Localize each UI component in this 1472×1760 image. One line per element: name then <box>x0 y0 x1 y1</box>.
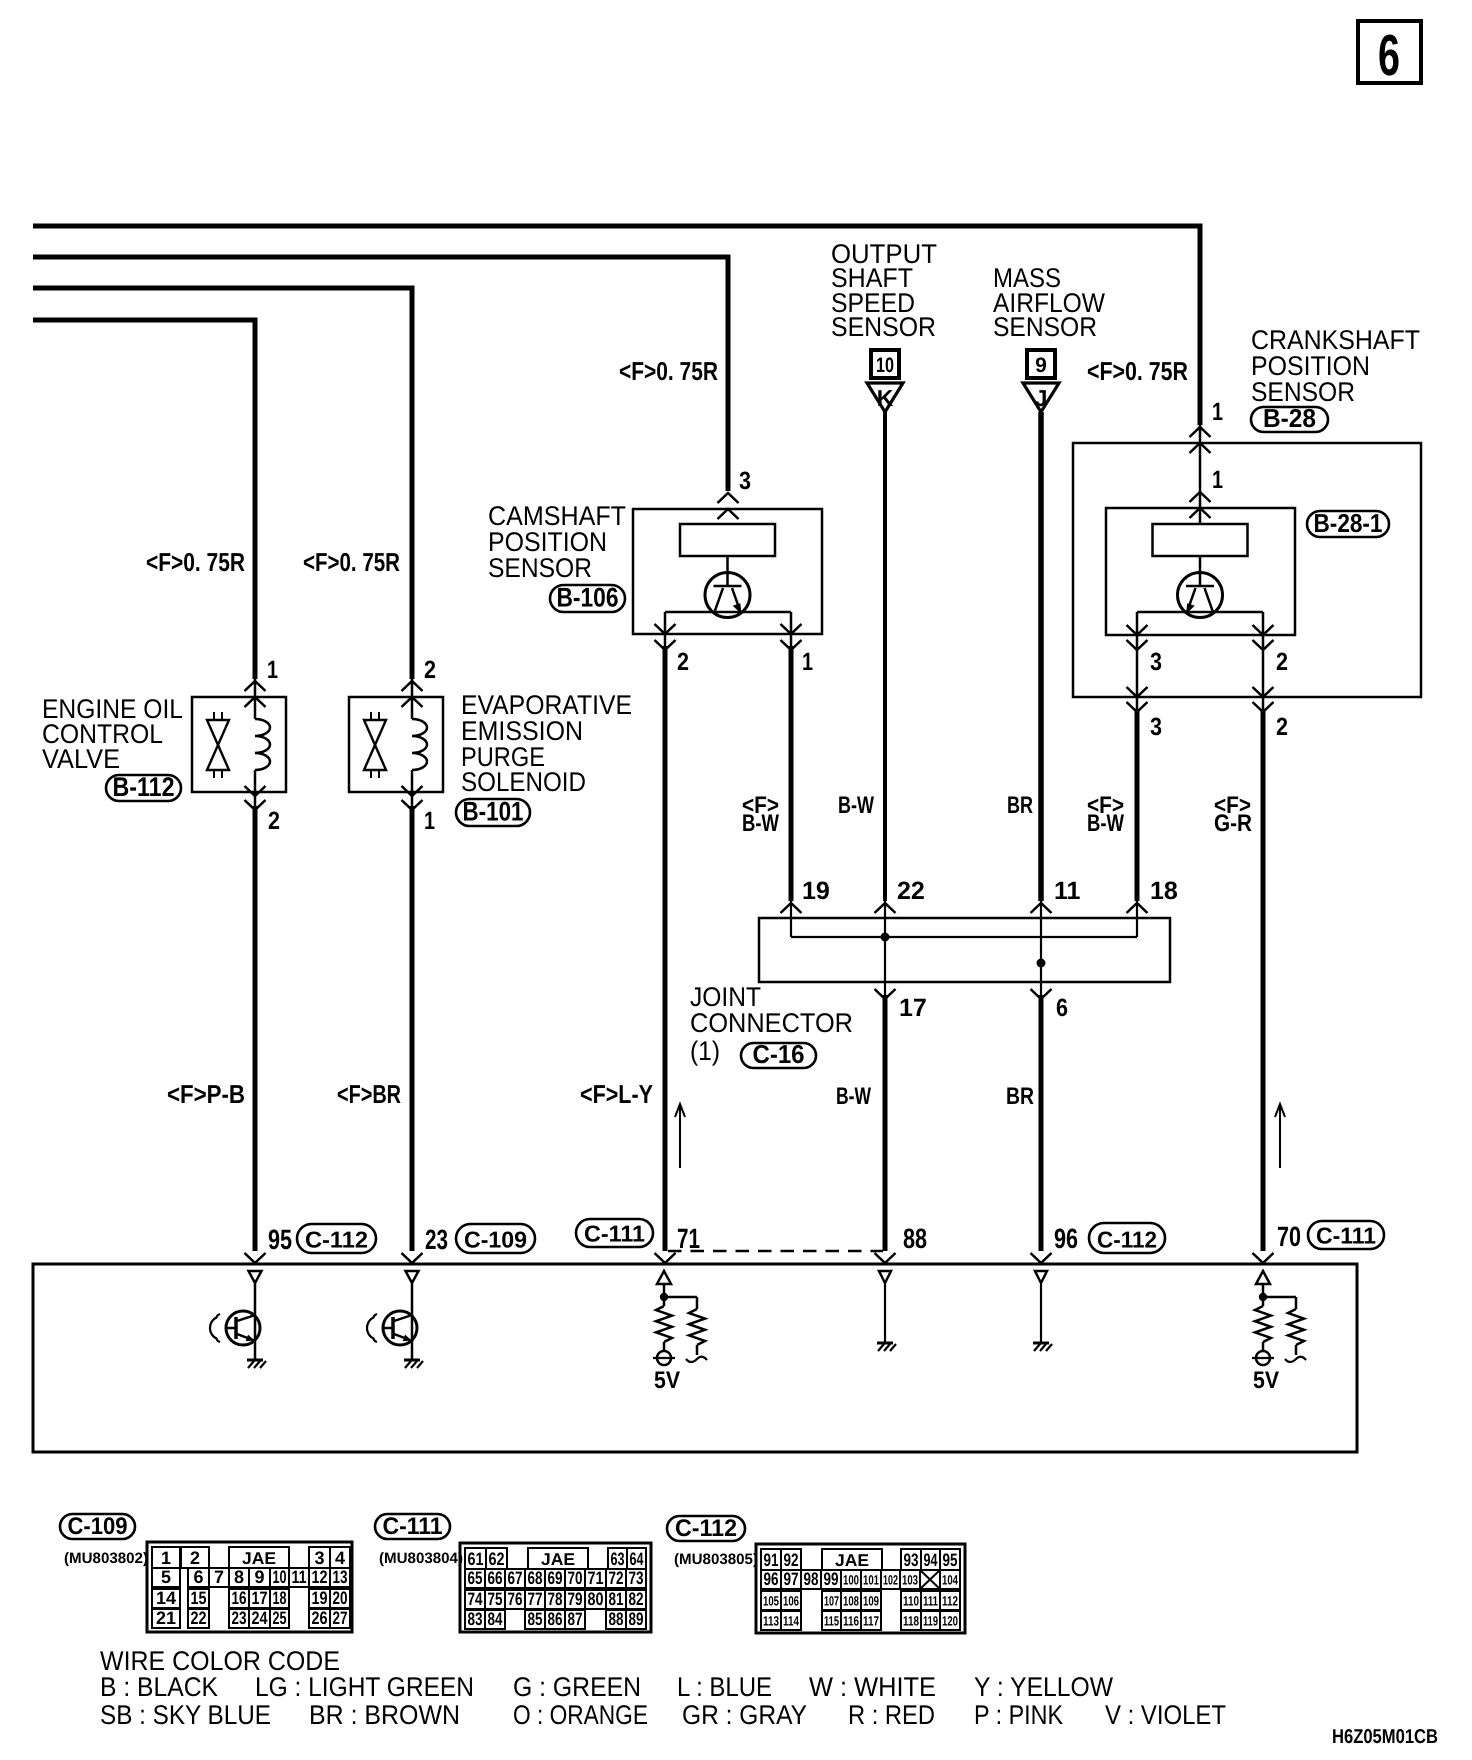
connector table C-111 <box>375 1514 450 1539</box>
svg-text:B-106: B-106 <box>557 583 619 613</box>
svg-text:85: 85 <box>528 1609 543 1629</box>
crankshaft sensor internal bottom link <box>1137 611 1263 614</box>
svg-text:<F>0. 75R: <F>0. 75R <box>146 547 245 577</box>
svg-text:70: 70 <box>1277 1221 1301 1252</box>
svg-text:J: J <box>1035 385 1048 411</box>
svg-text:116: 116 <box>843 1614 859 1629</box>
svg-text:66: 66 <box>488 1568 503 1588</box>
svg-text:70: 70 <box>568 1568 583 1588</box>
svg-text:1: 1 <box>1212 398 1223 426</box>
svg-text:6: 6 <box>193 1567 203 1587</box>
svg-text:(MU803804): (MU803804) <box>379 1550 463 1567</box>
connector code C-112 <box>1089 1223 1165 1253</box>
svg-text:(1): (1) <box>690 1036 720 1066</box>
wire: feed to crankshaft position sensor pin 1 <box>33 226 1200 425</box>
pull-up input circuit (pin 70) <box>1256 1271 1270 1284</box>
svg-text:<F>0. 75R: <F>0. 75R <box>1087 356 1188 386</box>
connector code C-16 <box>741 1043 816 1068</box>
svg-text:27: 27 <box>333 1608 348 1628</box>
svg-text:3: 3 <box>1150 713 1162 741</box>
connector code C-111 <box>1308 1221 1384 1249</box>
svg-text:112: 112 <box>942 1594 958 1609</box>
svg-text:88: 88 <box>609 1609 624 1629</box>
svg-text:11: 11 <box>292 1567 307 1587</box>
svg-text:VALVE: VALVE <box>42 744 120 774</box>
svg-text:17: 17 <box>899 994 927 1022</box>
svg-text:68: 68 <box>528 1568 543 1588</box>
svg-text:C-111: C-111 <box>1316 1223 1376 1249</box>
svg-text:99: 99 <box>824 1569 839 1589</box>
pull-up input circuit (pin 71) <box>657 1271 671 1284</box>
svg-text:10: 10 <box>273 1567 287 1587</box>
svg-text:65: 65 <box>468 1568 483 1588</box>
output transistor (pin 23) <box>406 1271 419 1283</box>
svg-text:L : BLUE: L : BLUE <box>677 1672 772 1702</box>
connector code B-112 <box>106 775 181 801</box>
svg-text:23: 23 <box>425 1224 448 1255</box>
svg-text:20: 20 <box>333 1588 348 1608</box>
connector table C-109 <box>60 1514 135 1539</box>
svg-text:C-112: C-112 <box>675 1515 737 1542</box>
svg-text:62: 62 <box>489 1549 505 1569</box>
svg-text:78: 78 <box>548 1589 563 1609</box>
svg-text:63: 63 <box>611 1549 625 1569</box>
svg-text:18: 18 <box>1150 877 1178 905</box>
wire <F>G-R to ECU pin 70 <box>1261 709 1266 1251</box>
svg-text:1: 1 <box>1212 466 1223 494</box>
svg-text:G-R: G-R <box>1214 810 1252 837</box>
joint connector internal bus <box>791 936 1137 938</box>
svg-text:88: 88 <box>903 1223 927 1254</box>
junction dot <box>881 933 890 942</box>
svg-text:<F>BR: <F>BR <box>337 1079 401 1109</box>
svg-text:64: 64 <box>630 1549 644 1569</box>
svg-text:71: 71 <box>677 1223 700 1254</box>
svg-text:9: 9 <box>1035 354 1047 377</box>
connector code C-111 <box>576 1219 653 1247</box>
wire: feed to evap purge solenoid pin 2 <box>33 288 412 679</box>
svg-text:5V: 5V <box>654 1367 680 1394</box>
wire <F>B-W to joint connector pin 19 <box>789 646 794 901</box>
svg-text:1: 1 <box>267 656 278 684</box>
svg-text:2: 2 <box>677 648 689 676</box>
svg-text:67: 67 <box>508 1568 523 1588</box>
svg-text:15: 15 <box>191 1588 207 1608</box>
connector code B-28-1 <box>1307 511 1389 537</box>
svg-text:84: 84 <box>488 1609 503 1629</box>
wire <F>P-B to ECU pin 95 <box>253 806 258 1251</box>
output transistor (pin 95) <box>249 1271 262 1283</box>
svg-text:100: 100 <box>843 1573 859 1588</box>
svg-text:19: 19 <box>312 1588 328 1608</box>
connector code B-28 <box>1251 407 1328 432</box>
svg-text:<F>0. 75R: <F>0. 75R <box>303 547 400 577</box>
connector box 9 <box>1027 350 1055 378</box>
svg-text:(MU803805): (MU803805) <box>674 1551 758 1568</box>
svg-text:91: 91 <box>764 1550 779 1570</box>
crossed-out cell <box>920 1570 940 1589</box>
svg-text:106: 106 <box>783 1594 799 1609</box>
svg-text:B-112: B-112 <box>113 772 175 802</box>
svg-text:C-109: C-109 <box>68 1513 128 1540</box>
svg-text:96: 96 <box>764 1569 779 1589</box>
svg-text:B-W: B-W <box>1087 810 1124 837</box>
svg-text:61: 61 <box>468 1549 484 1569</box>
wire BR from J to joint connector pin 11 <box>1038 412 1044 901</box>
svg-text:86: 86 <box>548 1609 563 1629</box>
svg-text:BR : BROWN: BR : BROWN <box>309 1700 460 1730</box>
harness direction arrow (right) <box>1279 1106 1281 1168</box>
joint connector C-16 box <box>759 918 1170 982</box>
svg-text:95: 95 <box>943 1550 958 1570</box>
ECU box <box>33 1264 1357 1452</box>
svg-text:80: 80 <box>588 1589 604 1609</box>
svg-text:H6Z05M01CB: H6Z05M01CB <box>1332 1726 1438 1748</box>
ground circuit (pin 88) <box>879 1271 891 1283</box>
svg-text:SENSOR: SENSOR <box>488 553 592 583</box>
svg-text:V : VIOLET: V : VIOLET <box>1105 1700 1226 1730</box>
svg-text:<F>L-Y: <F>L-Y <box>580 1079 653 1109</box>
svg-text:(MU803802): (MU803802) <box>64 1550 148 1567</box>
svg-text:SENSOR: SENSOR <box>831 312 936 342</box>
svg-text:97: 97 <box>784 1569 799 1589</box>
svg-text:GR : GRAY: GR : GRAY <box>682 1700 807 1730</box>
svg-text:2: 2 <box>424 656 436 684</box>
svg-text:26: 26 <box>312 1608 328 1628</box>
svg-text:17: 17 <box>252 1588 268 1608</box>
svg-text:96: 96 <box>1054 1223 1078 1254</box>
svg-text:CONNECTOR: CONNECTOR <box>690 1008 853 1038</box>
junction dot <box>1037 959 1046 968</box>
svg-text:JAE: JAE <box>835 1551 869 1570</box>
svg-text:C-112: C-112 <box>1097 1227 1157 1253</box>
svg-text:C-109: C-109 <box>464 1227 527 1253</box>
svg-text:Y : YELLOW: Y : YELLOW <box>974 1672 1113 1702</box>
svg-text:113: 113 <box>763 1614 779 1629</box>
svg-text:25: 25 <box>273 1608 287 1628</box>
svg-text:1: 1 <box>424 807 435 835</box>
svg-text:7: 7 <box>214 1567 224 1587</box>
camshaft sensor pickup symbol <box>705 573 750 618</box>
svg-text:71: 71 <box>588 1568 604 1588</box>
svg-text:13: 13 <box>333 1567 348 1587</box>
connector code C-109 <box>456 1224 535 1253</box>
svg-text:4: 4 <box>335 1548 345 1568</box>
svg-text:SENSOR: SENSOR <box>993 312 1097 342</box>
svg-text:105: 105 <box>763 1594 779 1609</box>
svg-text:92: 92 <box>784 1550 799 1570</box>
svg-text:B-W: B-W <box>838 792 874 819</box>
svg-text:B-28-1: B-28-1 <box>1314 508 1383 538</box>
svg-text:76: 76 <box>508 1589 523 1609</box>
svg-text:2: 2 <box>1276 648 1288 676</box>
svg-text:117: 117 <box>863 1614 879 1629</box>
svg-text:120: 120 <box>942 1614 958 1629</box>
ground circuit (pin 96) <box>1035 1271 1047 1283</box>
svg-text:O : ORANGE: O : ORANGE <box>513 1700 648 1730</box>
wire <F>L-Y to ECU pin 71 <box>663 646 668 1251</box>
svg-text:<F>P-B: <F>P-B <box>167 1079 245 1109</box>
svg-text:3: 3 <box>314 1548 324 1568</box>
svg-text:119: 119 <box>923 1614 938 1629</box>
wire B-W from K to joint connector pin 22 <box>883 412 887 901</box>
svg-text:10: 10 <box>876 354 894 377</box>
wire B-W to ECU pin 88 <box>883 995 888 1251</box>
svg-text:93: 93 <box>904 1550 919 1570</box>
svg-text:3: 3 <box>739 467 751 495</box>
wire: feed to camshaft position sensor pin 3 <box>33 257 728 491</box>
svg-text:6: 6 <box>1378 23 1400 88</box>
lead into B-28-1 <box>1199 425 1202 524</box>
svg-text:89: 89 <box>629 1609 644 1629</box>
svg-text:82: 82 <box>629 1589 644 1609</box>
svg-text:C-112: C-112 <box>305 1227 368 1253</box>
svg-text:12: 12 <box>312 1567 328 1587</box>
connector code C-112 <box>297 1224 376 1253</box>
svg-text:3: 3 <box>1150 648 1162 676</box>
evap purge solenoid B-101 <box>349 697 443 792</box>
svg-text:114: 114 <box>783 1614 799 1629</box>
svg-text:P : PINK: P : PINK <box>974 1700 1063 1730</box>
crankshaft position sensor outer box B-28 <box>1073 443 1421 697</box>
wire <F>BR to ECU pin 23 <box>410 806 415 1251</box>
svg-text:103: 103 <box>902 1573 918 1588</box>
svg-text:16: 16 <box>232 1588 247 1608</box>
svg-text:102: 102 <box>883 1573 898 1588</box>
svg-text:JAE: JAE <box>541 1550 575 1569</box>
svg-text:107: 107 <box>824 1594 839 1609</box>
svg-text:115: 115 <box>824 1614 839 1629</box>
harness direction arrow (left) <box>679 1106 681 1168</box>
svg-text:104: 104 <box>942 1573 958 1588</box>
svg-text:G : GREEN: G : GREEN <box>513 1672 641 1702</box>
svg-text:2: 2 <box>190 1548 200 1568</box>
svg-text:5V: 5V <box>1253 1367 1279 1394</box>
svg-text:1: 1 <box>161 1548 171 1568</box>
svg-text:B : BLACK: B : BLACK <box>100 1672 218 1702</box>
svg-text:B-101: B-101 <box>463 797 524 827</box>
svg-text:24: 24 <box>252 1608 268 1628</box>
svg-text:BR: BR <box>1007 792 1033 819</box>
svg-text:2: 2 <box>268 807 280 835</box>
svg-text:101: 101 <box>863 1573 879 1588</box>
svg-text:109: 109 <box>863 1594 879 1609</box>
triangle terminal K <box>867 383 903 412</box>
wire: feed to engine oil control valve pin 1 <box>33 320 255 679</box>
svg-text:B-28: B-28 <box>1263 403 1316 433</box>
svg-text:110: 110 <box>903 1594 919 1609</box>
wire BR to ECU pin 96 <box>1039 995 1044 1251</box>
connector table C-112 <box>667 1516 745 1541</box>
camshaft sensor internal bottom link <box>665 611 791 614</box>
svg-text:BR: BR <box>1006 1083 1034 1110</box>
svg-text:111: 111 <box>923 1594 938 1609</box>
svg-text:LG : LIGHT GREEN: LG : LIGHT GREEN <box>255 1672 474 1702</box>
svg-text:22: 22 <box>897 877 925 905</box>
triangle terminal J <box>1023 383 1059 412</box>
svg-text:21: 21 <box>156 1608 176 1628</box>
svg-text:23: 23 <box>232 1608 247 1628</box>
svg-text:87: 87 <box>568 1609 583 1629</box>
camshaft position sensor B-106 <box>633 509 822 634</box>
svg-text:W : WHITE: W : WHITE <box>809 1672 936 1702</box>
engine oil control valve B-112 <box>192 697 286 792</box>
svg-text:81: 81 <box>609 1589 624 1609</box>
svg-text:1: 1 <box>802 648 813 676</box>
connector code B-106 <box>550 585 625 612</box>
svg-text:22: 22 <box>191 1608 207 1628</box>
svg-text:SB : SKY BLUE: SB : SKY BLUE <box>100 1700 271 1730</box>
svg-text:118: 118 <box>903 1614 919 1629</box>
svg-text:9: 9 <box>254 1567 264 1587</box>
dashed link pin71-pin88 <box>668 1250 883 1253</box>
wire <F>B-W to joint connector pin 18 <box>1135 709 1140 901</box>
svg-text:C-111: C-111 <box>584 1221 645 1247</box>
crankshaft sensor inner box B-28-1 <box>1106 508 1295 635</box>
svg-text:B-W: B-W <box>836 1083 871 1110</box>
svg-text:69: 69 <box>548 1568 563 1588</box>
svg-text:73: 73 <box>629 1568 644 1588</box>
connector box 10 <box>871 350 899 378</box>
svg-text:94: 94 <box>924 1550 938 1570</box>
svg-text:K: K <box>877 385 894 411</box>
connector code B-101 <box>456 799 530 826</box>
svg-text:18: 18 <box>273 1588 287 1608</box>
page number box 6 <box>1358 21 1421 83</box>
svg-text:79: 79 <box>568 1589 583 1609</box>
svg-text:14: 14 <box>156 1588 176 1608</box>
svg-text:83: 83 <box>468 1609 483 1629</box>
svg-text:98: 98 <box>804 1569 819 1589</box>
crankshaft sensor pickup symbol <box>1178 573 1223 618</box>
svg-text:B-W: B-W <box>742 810 779 837</box>
svg-text:SOLENOID: SOLENOID <box>461 767 586 797</box>
svg-text:JAE: JAE <box>242 1549 276 1568</box>
svg-text:72: 72 <box>609 1568 624 1588</box>
svg-text:95: 95 <box>268 1224 292 1255</box>
svg-text:R : RED: R : RED <box>848 1700 935 1730</box>
svg-text:11: 11 <box>1054 877 1081 905</box>
svg-text:19: 19 <box>802 877 830 905</box>
svg-text:6: 6 <box>1056 994 1068 1022</box>
solenoid coil <box>255 719 270 770</box>
svg-text:74: 74 <box>468 1589 483 1609</box>
svg-text:<F>0. 75R: <F>0. 75R <box>619 356 718 386</box>
svg-text:108: 108 <box>843 1594 859 1609</box>
svg-text:C-111: C-111 <box>383 1513 443 1540</box>
svg-text:75: 75 <box>488 1589 503 1609</box>
svg-text:77: 77 <box>528 1589 543 1609</box>
svg-text:5: 5 <box>161 1567 171 1587</box>
svg-text:8: 8 <box>234 1567 244 1587</box>
svg-text:C-16: C-16 <box>753 1039 805 1069</box>
solenoid coil <box>412 719 427 770</box>
svg-text:2: 2 <box>1276 713 1288 741</box>
